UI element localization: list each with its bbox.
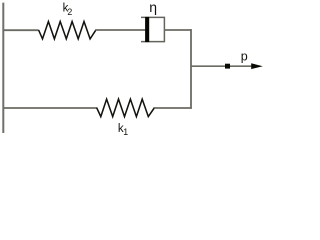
- spring k2: [39, 22, 96, 39]
- svg-text:p: p: [241, 50, 248, 64]
- wire: output lead: [191, 65, 252, 67]
- svg-text:1: 1: [123, 127, 128, 137]
- wall (left fixed support): [2, 3, 4, 133]
- spring k1: [97, 99, 155, 117]
- node: output junction dot: [225, 64, 230, 69]
- wire: right vertical rail: [190, 29, 192, 109]
- wire: spring k1 to right rail: [154, 107, 192, 109]
- svg-text:η: η: [149, 0, 157, 15]
- svg-text:2: 2: [67, 7, 72, 17]
- dashpot U1 cylinder (open left: top, right, bottom edges): [141, 17, 164, 41]
- dashpot U1 piston: [145, 17, 149, 42]
- wire: dashpot to right rail: [164, 29, 191, 31]
- wire: wall to spring k2: [3, 29, 39, 31]
- wire: wall to spring k1: [3, 107, 97, 109]
- arrow: applied load direction: [251, 63, 263, 69]
- wire: spring k2 to dashpot: [96, 29, 146, 31]
